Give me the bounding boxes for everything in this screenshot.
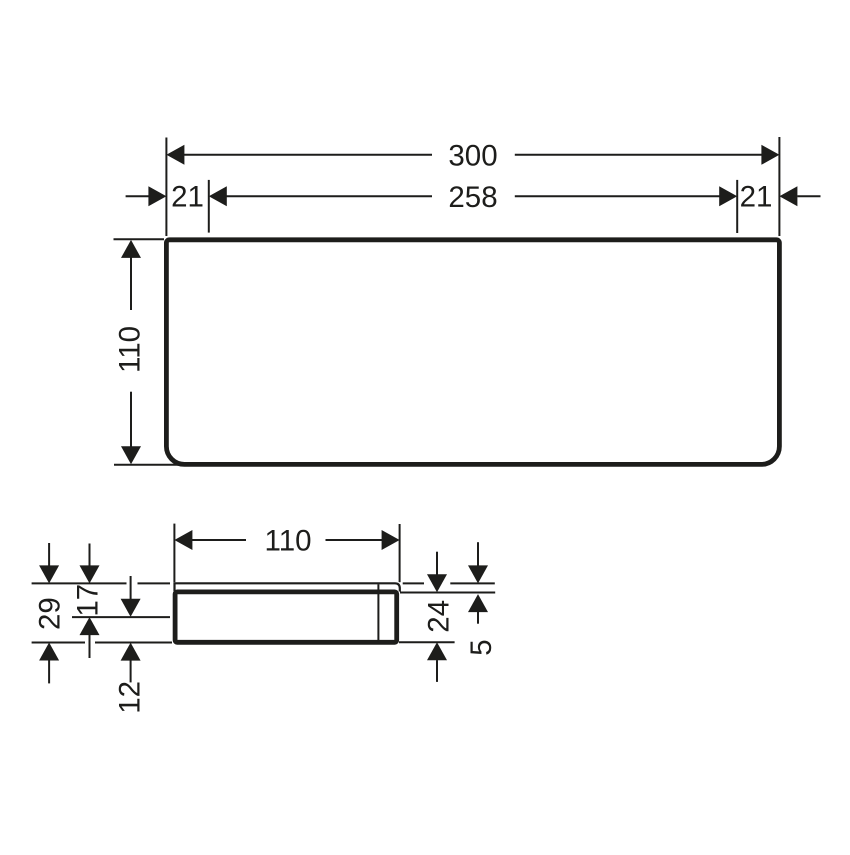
dimension 258 left arrow <box>209 186 227 206</box>
extension line L3 bottom left segment <box>32 642 85 644</box>
dimension 21 right tail line <box>797 195 820 197</box>
svg-text:300: 300 <box>448 140 497 173</box>
extension line bottom of 110 front <box>114 464 180 466</box>
extension line R3 <box>399 641 455 643</box>
dimension 258 line right segment <box>515 195 720 197</box>
extension line L3 bottom right segment <box>95 642 172 644</box>
extension line L2 middle <box>72 616 170 618</box>
extension line top of 110 front <box>114 238 165 240</box>
dimension 300 line right segment <box>515 154 762 156</box>
extension line right of 300 <box>778 137 780 236</box>
extension line left of 110 side <box>173 524 175 583</box>
dimension 29 up arrow <box>39 643 59 661</box>
svg-text:21: 21 <box>740 181 773 214</box>
dimension 5 up shaft <box>477 612 479 624</box>
dimension 24 down arrow <box>427 574 447 592</box>
dimension 110 side line right segment <box>326 539 384 541</box>
dimension 300 line left segment <box>183 154 432 156</box>
svg-text:258: 258 <box>448 181 497 214</box>
extension line L1 top left segment <box>32 582 127 584</box>
svg-text:29: 29 <box>33 597 66 630</box>
extension line left of 300 <box>165 138 167 237</box>
dimension 110 front up arrow <box>121 240 141 258</box>
dimension 300 right arrow <box>761 145 779 165</box>
svg-text:21: 21 <box>171 181 204 214</box>
dimension 24 up shaft <box>436 660 438 682</box>
svg-text:17: 17 <box>72 584 105 617</box>
extension line R1 right segment <box>450 582 495 584</box>
svg-text:110: 110 <box>264 525 311 558</box>
dimension 300 left arrow <box>166 145 184 165</box>
dimension 110 front upper segment <box>130 258 132 311</box>
dimension 29 down shaft <box>48 543 50 566</box>
extension line R2 <box>400 592 495 594</box>
dimension 12 down shaft <box>130 576 132 599</box>
dimension 29 up shaft <box>48 660 50 683</box>
dimension 21 left arrow <box>148 186 166 206</box>
dimension 12 up arrow <box>121 643 141 661</box>
dimension 12 down arrow <box>121 599 141 617</box>
extension line right of 258 <box>736 180 738 233</box>
svg-text:110: 110 <box>114 326 147 373</box>
dimension 17 down arrow <box>80 565 100 583</box>
side view glass lip <box>175 583 400 591</box>
dimension 21 left tail line <box>126 195 149 197</box>
dimension 258 line left segment <box>226 195 432 197</box>
side view divider line <box>377 584 379 642</box>
dimension 110 front down arrow <box>121 446 141 464</box>
dimension 110 side line left segment <box>191 539 246 541</box>
svg-text:12: 12 <box>114 681 147 714</box>
dimension 5 down arrow <box>468 565 488 583</box>
dimension 17 down shaft <box>89 544 91 567</box>
dimension 24 down shaft <box>436 552 438 575</box>
dimension 110 side right arrow <box>382 530 400 550</box>
extension line L1 top right segment <box>138 582 171 584</box>
dimension 5 down shaft <box>477 542 479 566</box>
svg-text:24: 24 <box>423 600 456 633</box>
side view body outline <box>175 592 397 642</box>
dimension 12 up shaft <box>130 660 132 682</box>
dimension 17 up shaft <box>89 635 91 658</box>
dimension 110 side left arrow <box>174 530 192 550</box>
extension line R1 left segment <box>403 582 424 584</box>
dimension 258 right arrow <box>719 186 737 206</box>
dimension 5 up arrow <box>468 594 488 612</box>
dimension 17 up arrow <box>80 617 100 635</box>
dimension 29 down arrow <box>39 565 59 583</box>
svg-text:5: 5 <box>465 639 498 655</box>
shelf outline front view <box>166 240 779 465</box>
dimension 24 up arrow <box>427 642 447 660</box>
dimension 21 right arrow <box>779 186 797 206</box>
extension line left of 258 <box>208 180 210 233</box>
extension line right of 110 side <box>399 524 401 582</box>
dimension 110 front lower segment <box>130 392 132 447</box>
